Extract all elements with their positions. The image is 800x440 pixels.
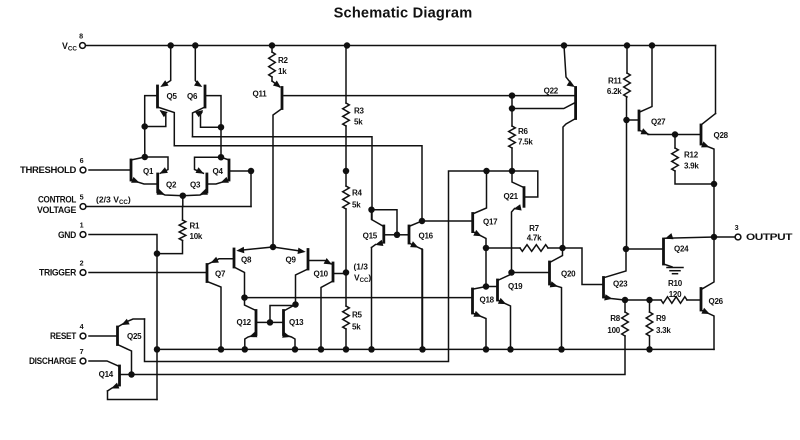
svg-text:4: 4 (80, 322, 84, 331)
svg-text:5: 5 (80, 193, 84, 202)
svg-text:R8: R8 (610, 314, 621, 323)
svg-text:Q6: Q6 (187, 92, 198, 101)
svg-text:RESET: RESET (50, 331, 76, 342)
svg-text:R12: R12 (684, 151, 699, 160)
svg-text:2: 2 (80, 259, 84, 268)
svg-text:Q2: Q2 (166, 181, 177, 190)
svg-text:R6: R6 (518, 127, 529, 136)
svg-text:Q4: Q4 (213, 167, 224, 176)
svg-text:R3: R3 (354, 106, 365, 115)
svg-text:Q17: Q17 (483, 218, 498, 227)
svg-text:1k: 1k (278, 67, 287, 76)
svg-text:R7: R7 (529, 224, 540, 233)
svg-text:R10: R10 (668, 279, 683, 288)
svg-text:Q28: Q28 (714, 131, 729, 140)
svg-text:8: 8 (79, 32, 83, 41)
svg-text:Q22: Q22 (544, 87, 559, 96)
svg-text:R2: R2 (278, 56, 289, 65)
svg-text:1: 1 (80, 221, 84, 230)
svg-text:Q3: Q3 (190, 181, 201, 190)
svg-text:DISCHARGE: DISCHARGE (29, 356, 77, 367)
svg-text:3.9k: 3.9k (684, 162, 699, 171)
svg-text:GND: GND (58, 230, 76, 241)
svg-text:TRIGGER: TRIGGER (39, 268, 76, 279)
svg-text:6.2k: 6.2k (607, 87, 622, 96)
svg-text:Q23: Q23 (613, 280, 628, 289)
svg-text:Q20: Q20 (561, 270, 576, 279)
svg-text:Q7: Q7 (215, 270, 226, 279)
svg-text:5k: 5k (352, 201, 361, 210)
svg-text:R4: R4 (352, 189, 363, 198)
svg-text:OUTPUT: OUTPUT (746, 232, 793, 243)
svg-text:R1: R1 (190, 221, 201, 230)
svg-text:Q24: Q24 (674, 245, 689, 254)
svg-text:Q10: Q10 (314, 270, 329, 279)
svg-text:Q8: Q8 (241, 256, 252, 265)
svg-text:Q21: Q21 (504, 192, 519, 201)
svg-text:3: 3 (735, 223, 739, 232)
svg-text:Q5: Q5 (167, 92, 178, 101)
svg-text:THRESHOLD: THRESHOLD (20, 165, 76, 176)
svg-text:5k: 5k (352, 323, 361, 332)
svg-text:Q25: Q25 (127, 332, 142, 341)
svg-text:VOLTAGE: VOLTAGE (37, 205, 77, 216)
svg-text:Q27: Q27 (651, 118, 666, 127)
svg-text:10k: 10k (190, 232, 203, 241)
svg-text:Q9: Q9 (286, 256, 297, 265)
svg-text:Q12: Q12 (237, 318, 252, 327)
svg-text:Q16: Q16 (419, 231, 434, 240)
svg-text:7: 7 (80, 347, 84, 356)
svg-text:Q1: Q1 (143, 167, 154, 176)
svg-text:CONTROL: CONTROL (38, 195, 76, 206)
svg-text:R5: R5 (352, 311, 363, 320)
svg-text:120: 120 (669, 290, 682, 299)
svg-text:Q19: Q19 (508, 282, 523, 291)
svg-text:Q11: Q11 (253, 90, 268, 99)
svg-text:7.5k: 7.5k (518, 138, 533, 147)
svg-text:3.3k: 3.3k (656, 326, 671, 335)
svg-text:4.7k: 4.7k (527, 234, 542, 243)
svg-text:6: 6 (80, 156, 84, 165)
svg-text:R11: R11 (608, 76, 622, 85)
svg-text:100: 100 (607, 326, 620, 335)
svg-text:5k: 5k (354, 117, 363, 126)
svg-text:Q14: Q14 (99, 370, 114, 379)
svg-text:Q26: Q26 (709, 297, 724, 306)
svg-text:(1/3: (1/3 (354, 262, 369, 272)
svg-text:Schematic Diagram: Schematic Diagram (334, 6, 473, 22)
svg-text:R9: R9 (656, 314, 667, 323)
svg-text:Q18: Q18 (480, 296, 495, 305)
svg-text:Q13: Q13 (289, 318, 304, 327)
svg-text:Q15: Q15 (363, 232, 378, 241)
